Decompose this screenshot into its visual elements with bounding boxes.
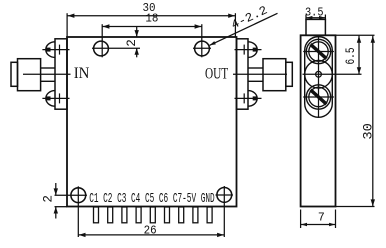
svg-text:OUT: OUT	[205, 66, 228, 83]
svg-text:C1 C2 C3 C4 C5 C6 C7-5V GND: C1 C2 C3 C4 C5 C6 C7-5V GND	[89, 191, 215, 207]
svg-text:2: 2	[124, 39, 139, 47]
svg-text:4-2.2: 4-2.2	[229, 3, 270, 32]
svg-text:18: 18	[145, 12, 158, 26]
svg-text:2: 2	[41, 195, 56, 203]
svg-text:30: 30	[360, 123, 375, 140]
svg-text:7: 7	[318, 210, 325, 224]
svg-text:IN: IN	[74, 65, 90, 82]
svg-text:26: 26	[144, 224, 157, 238]
svg-text:6.5: 6.5	[343, 48, 358, 65]
svg-text:3.5: 3.5	[305, 6, 324, 20]
